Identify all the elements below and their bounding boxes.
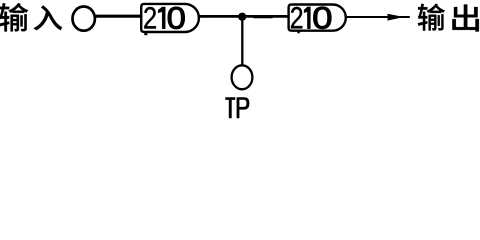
value label 210 of pad 2 — [291, 7, 310, 29]
output wire with arrow — [346, 16, 410, 18]
test point circle TP — [232, 65, 253, 89]
attenuator pad 2 (tag-shaped box) — [289, 5, 346, 31]
input terminal circle — [73, 7, 95, 31]
value label digit 0 of pad 1 (thick-walled) — [168, 7, 185, 29]
small scan tick under pad 1 — [144, 33, 147, 35]
label 输出 (output) char 输 — [418, 4, 445, 31]
label 输入 (input) char 入 — [34, 5, 63, 30]
vertical wire junction to test point — [241, 17, 243, 66]
slight thick lump on wire (scan) — [254, 15, 273, 18]
label 输入 (input) char 输 — [0, 3, 28, 31]
value label digit 0 of pad 2 (thick-walled) — [314, 7, 332, 29]
junction node dot — [238, 13, 246, 21]
wire attenuator 1 to junction and attenuator 2 — [198, 15, 290, 18]
attenuator pad 1 (tag-shaped box) — [141, 4, 199, 32]
small scan tick under pad 2 — [297, 32, 299, 34]
label TP letter T — [225, 97, 235, 118]
value label 210 of pad 1 — [144, 7, 165, 29]
wire input circle to attenuator 1 — [96, 15, 143, 18]
label TP letter P — [237, 97, 250, 118]
label 输出 (output) char 出 — [452, 4, 479, 31]
arrowhead — [388, 14, 405, 21]
